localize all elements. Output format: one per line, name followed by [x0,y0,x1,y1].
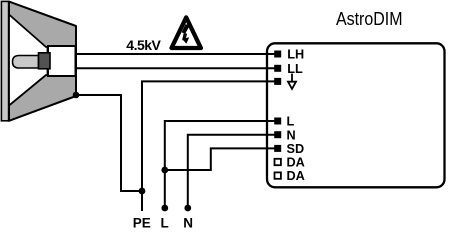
svg-text:L: L [160,216,168,229]
svg-text:L: L [287,115,295,129]
svg-text:LH: LH [287,48,304,62]
svg-text:LL: LL [287,62,303,76]
svg-text:N: N [183,216,193,229]
svg-text:SD: SD [287,142,305,156]
svg-text:4.5kV: 4.5kV [126,37,161,53]
svg-text:N: N [287,128,296,142]
svg-text:DA: DA [287,156,305,170]
svg-text:DA: DA [287,169,305,183]
svg-text:PE: PE [133,216,151,229]
svg-text:AstroDIM: AstroDIM [336,8,403,29]
